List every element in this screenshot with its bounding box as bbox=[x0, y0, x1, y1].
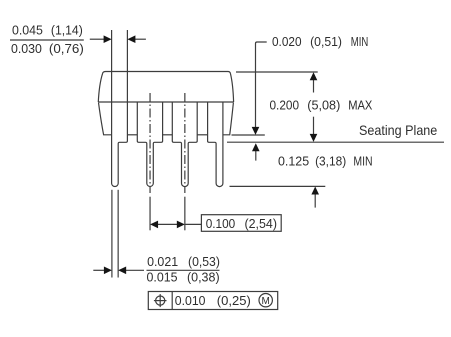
pin 3 bbox=[172, 102, 197, 187]
dimension 0.200 line upper segment bbox=[313, 79, 315, 93]
body parting line bbox=[98, 101, 233, 103]
true position symbol bbox=[156, 296, 165, 305]
svg-text:0.125: 0.125 bbox=[278, 155, 309, 169]
body bottom extension line (right) bbox=[232, 134, 265, 136]
pin 4 bbox=[208, 102, 223, 187]
svg-text:0.010: 0.010 bbox=[175, 294, 206, 308]
svg-text:MAX: MAX bbox=[348, 98, 373, 112]
extension lines pin1 lead edges (bottom, for 0.021/0.015 dim) bbox=[111, 190, 113, 278]
svg-text:0.021: 0.021 bbox=[147, 255, 178, 269]
body lower-left end bbox=[99, 103, 112, 135]
arrowhead down (0.200 bottom) bbox=[310, 134, 318, 142]
svg-text:(0,25): (0,25) bbox=[217, 294, 251, 308]
svg-text:(2,54): (2,54) bbox=[245, 217, 278, 231]
dimension 0.200 line lower segment bbox=[313, 117, 315, 135]
svg-text:0.020: 0.020 bbox=[272, 35, 302, 49]
arrowhead left (0.100) bbox=[150, 221, 158, 229]
arrow shaft 0.020 bottom bbox=[255, 150, 257, 161]
far-side bottom between pin1 and pin2 bbox=[127, 134, 137, 136]
arrowhead down (0.020 top) bbox=[252, 127, 260, 135]
svg-text:(3,18): (3,18) bbox=[315, 155, 346, 169]
svg-text:(0,51): (0,51) bbox=[310, 35, 342, 49]
feature control frame divider bbox=[171, 292, 173, 310]
svg-text:Seating Plane: Seating Plane bbox=[359, 123, 438, 138]
svg-text:0.200: 0.200 bbox=[270, 98, 300, 112]
centerline pin 3 bbox=[184, 93, 186, 193]
arrowhead up (0.020 bottom) bbox=[252, 143, 260, 151]
package body top outline bbox=[98, 72, 233, 103]
svg-text:0.100: 0.100 bbox=[206, 217, 236, 231]
arrowhead left (0.021) bbox=[118, 267, 126, 275]
arrowhead right (0.100) bbox=[177, 221, 185, 229]
svg-text:(0,53): (0,53) bbox=[188, 255, 220, 269]
svg-text:MIN: MIN bbox=[351, 35, 369, 49]
far-side bottom between pin2 and pin3 bbox=[163, 134, 173, 136]
pin tip extension line bbox=[230, 185, 326, 187]
pin 1 bbox=[112, 102, 128, 186]
arrowhead left (0.030 dim) bbox=[127, 35, 135, 43]
extension line pin1 left edge (top, for 0.045 dim) bbox=[111, 30, 113, 102]
arrowhead up (0.200 top) bbox=[310, 72, 318, 80]
dimension 0.045/0.030 line bbox=[90, 38, 105, 40]
svg-text:0.030: 0.030 bbox=[11, 42, 42, 56]
arrowhead up (0.125) bbox=[311, 187, 319, 195]
leader 0.020 MIN bbox=[256, 42, 267, 128]
fraction bar 0.021/0.015 bbox=[147, 269, 220, 271]
svg-text:(0,38): (0,38) bbox=[187, 270, 220, 284]
svg-text:(5,08): (5,08) bbox=[307, 98, 340, 112]
feature control frame box bbox=[148, 292, 277, 310]
dimension 0.021/0.015 line bbox=[93, 269, 104, 271]
svg-text:(1,14): (1,14) bbox=[51, 23, 83, 37]
svg-text:(0,76): (0,76) bbox=[49, 42, 84, 56]
body lower-right end bbox=[223, 103, 234, 135]
far-side bottom between pin3 and pin4 bbox=[197, 134, 207, 136]
svg-text:0.015: 0.015 bbox=[147, 270, 178, 284]
extension line pin1 shoulder right edge (top, for 0.030 dim) bbox=[126, 30, 128, 102]
svg-text:0.045: 0.045 bbox=[12, 23, 43, 37]
centerline pin 2 bbox=[149, 93, 151, 193]
arrowhead right (0.045 dim) bbox=[104, 35, 112, 43]
dimension 0.100 line bbox=[156, 223, 179, 225]
box 0.100 bbox=[201, 215, 281, 232]
seating plane line bbox=[227, 141, 444, 143]
svg-text:MIN: MIN bbox=[353, 155, 372, 169]
arrow shaft 0.125 bbox=[314, 193, 316, 208]
fraction bar 0.045/0.030 bbox=[10, 39, 84, 41]
arrowhead right (0.021) bbox=[104, 267, 112, 275]
svg-text:M: M bbox=[262, 296, 270, 307]
circled M symbol bbox=[259, 294, 272, 307]
body top extension line (right) bbox=[236, 71, 318, 73]
pin 2 bbox=[137, 102, 162, 186]
